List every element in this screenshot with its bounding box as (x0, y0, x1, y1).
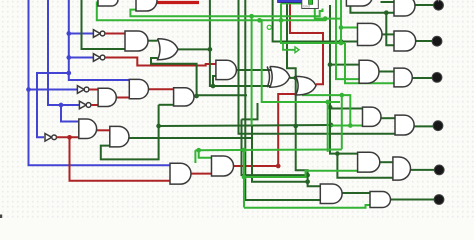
wire to NOT2 input (69, 57, 94, 59)
junction top line (384, 10, 389, 15)
and gate W (393, 157, 411, 180)
wire bright staircase from component pin (315, 9, 341, 19)
wire to gate P top input (330, 64, 359, 66)
junction x244 top (242, 148, 247, 153)
junction gate N feed (211, 84, 216, 89)
wire gate V out to gate W (380, 161, 393, 163)
junction dark green at line L1 (293, 124, 298, 129)
wire gate S out to LED4 (414, 125, 438, 127)
wire gate K out (290, 77, 296, 79)
wire bright vertical x327 to gate S feed (327, 102, 329, 152)
junction blue C (59, 103, 64, 108)
LED output 3 (432, 73, 442, 83)
wire gate R out to gate S (381, 117, 395, 119)
and gate E (129, 79, 148, 98)
wire bright to gate I top input (199, 150, 212, 158)
and gate R (363, 107, 381, 126)
junction blue A (26, 87, 31, 92)
LED output 2 (432, 36, 442, 46)
wire to NOT3 input (29, 89, 78, 91)
wire bright green line yB1 (130, 9, 322, 17)
wire dark green x272 to gate Q lower input (273, 0, 358, 42)
wire gate A out to gate B (148, 40, 158, 42)
svg-text:Gnd: Gnd (303, 5, 310, 9)
wire bright y95 to junction (302, 95, 350, 125)
inverter NOT3 (77, 86, 84, 94)
junction yB2 end (323, 16, 328, 21)
junction blue D3 (66, 71, 71, 76)
wire bright v345 to gate T lower input (345, 43, 394, 83)
wire gate AB out to LED2 (416, 40, 436, 42)
wire red error from pin to gate L output (290, 2, 323, 84)
junction blue D2 (66, 55, 71, 60)
or gate L (296, 76, 316, 95)
and gate I (212, 156, 234, 176)
wire blue to gate H top input (61, 105, 79, 122)
wire bright vertical x252 (251, 16, 253, 125)
and gate AA (394, 0, 415, 16)
junction x330 line L1 (329, 123, 334, 128)
wire to NOT1 input (69, 33, 94, 35)
and gate C (174, 88, 194, 106)
junction blue D1 (66, 31, 71, 36)
junction x330 gate R (328, 105, 333, 110)
inverter NOT1 (93, 30, 100, 38)
and gate S (395, 115, 414, 135)
wire stub gate row1 input (97, 1, 99, 3)
wire gate F out to gate E (116, 97, 129, 99)
wire bright vertical x341 (340, 0, 342, 43)
splitter arrow (283, 44, 295, 50)
wire gate T out to LED3 (412, 77, 436, 79)
LED output 5 (434, 165, 444, 175)
input pin blue box (278, 0, 302, 3)
wire red error vertical to gate L input (278, 94, 296, 166)
wire red to gate J bottom input (70, 137, 171, 181)
wire blue C to NOT4 input (48, 0, 79, 105)
wire blue vertical A / to gate J top input (29, 0, 171, 165)
wire NOT1 out to gate A (105, 33, 125, 35)
inverter NOT2 (93, 54, 100, 62)
wire gate X out to gate Y (342, 192, 370, 194)
and gate Y (370, 192, 391, 208)
wire NOT4 out to gate F (91, 104, 98, 106)
wire thick red top bar (157, 1, 199, 4)
wire dark green to gate A lower input (82, 0, 126, 49)
wire NOT3 out to gate F (89, 89, 98, 91)
and gate X (320, 184, 342, 204)
junction x337 (335, 151, 340, 156)
inverter NOT4 (79, 101, 86, 109)
inverter NOT5 (45, 134, 52, 142)
wire bright y207 to gate Y lower input (244, 205, 370, 208)
wire bright green to component (281, 2, 302, 4)
wire gate row1-left out to gate AA (381, 1, 395, 3)
wire bright vertical x259 to line y102 (260, 20, 341, 102)
LED output 1 (434, 0, 444, 10)
wire bright y177 to gate V lower input (244, 171, 358, 177)
and gate J (170, 163, 191, 184)
and gate Q (358, 23, 383, 45)
wire dark green line L1 (159, 125, 331, 126)
LED1 label stub (438, 0, 440, 2)
and gate T (394, 68, 412, 87)
wire bright vertical x281 and y43 (281, 3, 345, 43)
or gate B (158, 39, 179, 60)
junction x244 y177 (242, 175, 247, 180)
junction gate K out (293, 76, 298, 81)
wire NOT2 out to gate N (105, 58, 216, 66)
junction gate B out (208, 47, 213, 52)
junction yB1 x252 (249, 14, 254, 19)
wire bright line y150 (195, 149, 341, 152)
junction gate R lower (348, 123, 353, 128)
and gate H (79, 119, 97, 139)
wire dark green C out branch right (197, 94, 247, 96)
wire to gate W lower input (337, 154, 393, 178)
wire vertical 386 to gate AB lower input (386, 13, 394, 46)
and gate G (110, 126, 129, 146)
wire gate C out to gate B lower input (151, 58, 197, 96)
junction yB2 (257, 18, 262, 23)
and gate row1-c (cut) (346, 0, 372, 6)
wire gate N out to gate K upper input (236, 69, 272, 71)
wire dark green through gate L to gate X top input (287, 2, 320, 186)
junction dark green C out (194, 94, 199, 99)
LED output 6 (434, 195, 444, 205)
wire bright vertical x341 down (341, 95, 343, 149)
wire to gate N lower input (213, 76, 216, 86)
wire dark green top line y12.7 to gate AA (350, 5, 394, 12)
wire gate G output line (129, 137, 252, 139)
junction y102 (325, 100, 330, 105)
wire gate Y out to LED6 (391, 199, 440, 201)
wire gate Q out to gate AB (382, 33, 394, 35)
wire bright to gate Q upper input (341, 27, 358, 29)
junction y41.5 (339, 39, 344, 44)
wire bright green line yB2 (97, 2, 325, 21)
junction y43 x341 (339, 41, 344, 46)
wire gate P out to gate T (379, 71, 394, 73)
wire gate J out to gate I (191, 173, 212, 175)
wire gate AA out to LED1 (415, 4, 436, 6)
component box (302, 0, 319, 9)
junction x330 gate P (328, 62, 333, 67)
wire NOT5 out to gate H (57, 136, 79, 138)
and gate row1-a (cut) (98, 0, 118, 6)
and gate AB (394, 31, 416, 51)
junction y95 (339, 93, 344, 98)
and gate F (98, 88, 116, 106)
wire bright vertical x244 (243, 150, 245, 207)
wire blue B to NOT5 input (37, 73, 69, 137)
and gate A (125, 31, 148, 51)
wire gate I out (234, 165, 279, 167)
wire dark y119 corner (242, 103, 258, 119)
wire bright stub x195 (194, 150, 196, 163)
wire dark x252 y181 line (252, 126, 308, 182)
wire bundle vA to gate S lower input (239, 0, 396, 134)
xor gate K (270, 67, 290, 88)
and gate N (216, 60, 237, 79)
and gate row1-b (cut) (136, 0, 157, 11)
wire bundle vC to gate X top feed (242, 119, 308, 175)
wire gate B output (178, 48, 210, 50)
wire bright v336 to gate P lower input (336, 0, 359, 79)
junction red I (276, 164, 281, 169)
junction x341 gate Q (339, 25, 344, 30)
wire dark green loop to gate G lower input (101, 105, 159, 160)
wire to gate R top input (330, 108, 363, 110)
corner artifact (0, 215, 2, 219)
wire gate H out to gate G (97, 129, 110, 131)
wire to gate C lower input (159, 104, 174, 106)
wire vertical to gate K lower input (210, 0, 272, 86)
wire dark green vertical x330 to gate V top input (330, 5, 358, 154)
wire gate E out to gate C (149, 88, 174, 90)
wire bright to gate R lower input (331, 125, 363, 127)
wire bundle vB to gate X lower input (245, 0, 320, 200)
junction x281 (279, 18, 284, 23)
and gate P (359, 60, 379, 83)
wire gate W out to LED5 (411, 169, 440, 171)
junction dark green L1 (156, 124, 161, 129)
junction x307 y175 (305, 173, 310, 178)
junction x307 y181 (305, 179, 310, 184)
wire blue D to gate E top input (69, 0, 130, 80)
junction red NOT5 (67, 135, 72, 140)
and gate V (358, 152, 380, 172)
LED output 4 (433, 121, 443, 131)
open ring marker (267, 25, 271, 29)
junction y150 (196, 148, 201, 153)
